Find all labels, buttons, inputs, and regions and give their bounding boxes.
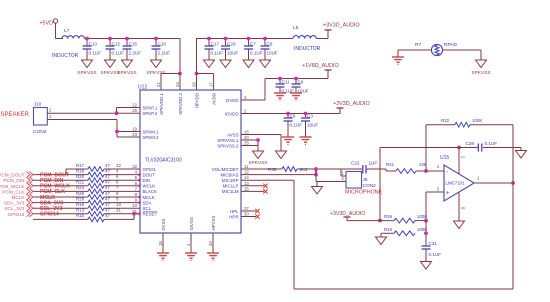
svg-text:25: 25 bbox=[244, 141, 249, 146]
svg-text:47: 47 bbox=[105, 196, 110, 201]
wire mic ground branch bbox=[316, 175, 341, 187]
net label SDA_3V3 bbox=[40, 200, 63, 206]
svg-text:R15: R15 bbox=[76, 213, 85, 218]
junction C6 bbox=[263, 37, 267, 41]
wire DVDD bbox=[241, 70, 328, 100]
svg-text:1UF: 1UF bbox=[369, 161, 378, 166]
svg-text:SPKM.2: SPKM.2 bbox=[143, 135, 160, 140]
svg-text:HPVSS: HPVSS bbox=[211, 216, 216, 231]
svg-text:+3V3D_AUDIO: +3V3D_AUDIO bbox=[330, 211, 365, 217]
svg-text:C31: C31 bbox=[429, 241, 438, 246]
junction R33 node bbox=[424, 231, 428, 235]
svg-text:10: 10 bbox=[116, 202, 121, 207]
wire SCL_3V3 row bbox=[33, 207, 140, 209]
wire VOL/MICDET bbox=[241, 168, 361, 170]
capacitor C29 0.1UF bbox=[466, 141, 498, 152]
wire GPIO14 jog row bbox=[33, 214, 140, 220]
svg-text:R19: R19 bbox=[76, 202, 85, 207]
net label PCM_DOUT bbox=[40, 172, 70, 178]
resistor R15 47 bbox=[76, 213, 110, 222]
capacitor C10 bbox=[152, 39, 171, 56]
ground C29 bbox=[516, 148, 527, 159]
svg-text:MIC1LP: MIC1LP bbox=[223, 184, 239, 189]
wire AVSS bbox=[241, 135, 281, 152]
resistor R7 RPAD bbox=[415, 42, 458, 56]
wire MCLK row bbox=[33, 196, 140, 198]
junction C12 bbox=[108, 37, 112, 41]
svg-text:PCM_CLK: PCM_CLK bbox=[2, 189, 25, 194]
U12 top pin names and numbers bbox=[156, 82, 217, 115]
svg-text:R32: R32 bbox=[441, 118, 450, 123]
junction GPIO14 to RESET bbox=[132, 212, 136, 216]
svg-text:CON2: CON2 bbox=[363, 183, 377, 189]
svg-text:R7: R7 bbox=[415, 42, 421, 48]
svg-text:C15: C15 bbox=[129, 42, 138, 47]
svg-text:47: 47 bbox=[105, 163, 110, 168]
svg-text:DVSS: DVSS bbox=[161, 218, 166, 230]
svg-text:+: + bbox=[446, 191, 450, 197]
ground earth C8 bbox=[282, 127, 294, 144]
svg-text:SDA_3V3: SDA_3V3 bbox=[4, 201, 25, 206]
wire op-amp output bbox=[474, 182, 513, 184]
svg-text:+1V8D_AUDIO: +1V8D_AUDIO bbox=[302, 63, 339, 69]
svg-text:SCL_3V3: SCL_3V3 bbox=[4, 206, 24, 211]
svg-text:SPEAKER: SPEAKER bbox=[1, 112, 30, 118]
junction SPKP bbox=[115, 111, 119, 115]
junction C10 bbox=[154, 37, 158, 41]
off-page connector SDA_3V3 bbox=[4, 200, 33, 206]
svg-text:SPKVDD.2: SPKVDD.2 bbox=[178, 92, 183, 114]
pin number 32 bbox=[116, 163, 121, 168]
junction SPKVDD split bbox=[178, 72, 182, 76]
svg-text:R18: R18 bbox=[76, 168, 85, 173]
resistor R13 47 bbox=[76, 208, 110, 217]
svg-text:DIN: DIN bbox=[143, 178, 151, 183]
svg-text:VOL/MICDET: VOL/MICDET bbox=[212, 167, 239, 172]
svg-text:0.1UF: 0.1UF bbox=[485, 141, 498, 146]
svg-text:20: 20 bbox=[244, 135, 249, 140]
svg-text:+3V3D_AUDIO: +3V3D_AUDIO bbox=[333, 101, 370, 107]
net label PCM_WCLK bbox=[40, 184, 70, 190]
svg-text:MIC1RP: MIC1RP bbox=[222, 178, 239, 183]
svg-text:12: 12 bbox=[244, 170, 249, 175]
wire V+ rail bbox=[380, 148, 521, 221]
junction C15 bbox=[125, 37, 129, 41]
op-amp U15 LMC7101 bbox=[440, 155, 474, 201]
wire PCM_DOUT row bbox=[33, 174, 140, 176]
wire op-amp pin5 bbox=[458, 192, 460, 221]
junction C3 bbox=[304, 112, 308, 116]
svg-text:0.1UF: 0.1UF bbox=[429, 252, 442, 257]
svg-text:R17: R17 bbox=[76, 163, 85, 168]
off-page connector SCL_3V3 bbox=[4, 205, 33, 211]
svg-text:SPKVSS.1: SPKVSS.1 bbox=[217, 138, 239, 143]
ground C20 bbox=[220, 55, 231, 68]
svg-text:AVSS: AVSS bbox=[227, 132, 238, 137]
svg-text:R28: R28 bbox=[76, 196, 85, 201]
capacitor C17 bbox=[205, 39, 224, 56]
svg-text:C20: C20 bbox=[227, 42, 236, 47]
off-page connector PCM_DOUT bbox=[0, 172, 33, 178]
power symbol +1V8D_AUDIO bbox=[302, 63, 339, 79]
svg-text:0.1UF: 0.1UF bbox=[112, 51, 125, 56]
wire R36 to node bbox=[415, 220, 426, 222]
net label SPEAKER bbox=[1, 112, 30, 118]
no-connect X MIC1LP bbox=[263, 184, 267, 188]
svg-text:0.1UF: 0.1UF bbox=[89, 51, 102, 56]
svg-text:R13: R13 bbox=[76, 208, 85, 213]
wire SPKVSS pins bbox=[241, 140, 258, 151]
svg-text:47: 47 bbox=[105, 208, 110, 213]
svg-text:47: 47 bbox=[105, 180, 110, 185]
svg-text:0.1UF: 0.1UF bbox=[290, 123, 303, 128]
ground R33 bbox=[376, 237, 387, 245]
svg-text:47: 47 bbox=[105, 191, 110, 196]
power symbol +3V3D_AUDIO bias bbox=[330, 211, 365, 221]
svg-text:26: 26 bbox=[132, 108, 137, 113]
resistor R26 47 bbox=[76, 191, 110, 200]
svg-text:C10: C10 bbox=[158, 42, 167, 47]
wire PCM_CLK row bbox=[33, 190, 140, 192]
ground SPKVSS mid bbox=[248, 151, 267, 166]
wire AVDD branch bbox=[197, 74, 214, 91]
svg-text:GPIO14: GPIO14 bbox=[8, 212, 25, 217]
resistor R35 2K2 bbox=[268, 167, 308, 172]
svg-text:U12: U12 bbox=[138, 85, 147, 91]
junction feedback input bbox=[424, 169, 428, 173]
pin number 7 bbox=[116, 185, 119, 190]
svg-text:J10: J10 bbox=[34, 102, 42, 108]
wire GPIO14 row bbox=[33, 213, 140, 215]
wire MIC1LM nc bbox=[241, 190, 264, 192]
capacitor C20 bbox=[221, 39, 238, 56]
ground mic bbox=[312, 187, 323, 195]
svg-text:R20: R20 bbox=[76, 174, 85, 179]
svg-text:30: 30 bbox=[244, 212, 249, 217]
ground SPKVSS C10 bbox=[146, 55, 165, 76]
ground C7 bbox=[243, 55, 254, 68]
wire R7 left bbox=[398, 49, 432, 51]
svg-text:MICROPHONE: MICROPHONE bbox=[345, 190, 383, 196]
svg-text:13: 13 bbox=[244, 181, 249, 186]
svg-text:32: 32 bbox=[116, 163, 121, 168]
svg-text:SDA: SDA bbox=[143, 200, 152, 205]
capacitor C31 0.1UF bbox=[422, 241, 442, 262]
pin number 9 bbox=[116, 196, 119, 201]
wire op-amp pin2 supply bbox=[458, 148, 460, 175]
svg-text:HPL: HPL bbox=[230, 209, 239, 214]
svg-text:16: 16 bbox=[244, 130, 249, 135]
net label SCL_3V3 bbox=[40, 206, 63, 212]
svg-text:R31: R31 bbox=[386, 162, 395, 167]
svg-text:L7: L7 bbox=[64, 28, 70, 34]
svg-text:47: 47 bbox=[105, 174, 110, 179]
svg-text:R35: R35 bbox=[268, 167, 277, 172]
svg-text:47: 47 bbox=[105, 202, 110, 207]
wire MIC1LP nc bbox=[241, 185, 264, 187]
svg-text:SPKP.2: SPKP.2 bbox=[143, 111, 158, 116]
capacitor C9 bbox=[292, 79, 309, 94]
svg-text:L5: L5 bbox=[293, 25, 299, 31]
svg-text:C7: C7 bbox=[250, 42, 256, 47]
net label PCM_DIN bbox=[40, 178, 64, 184]
svg-text:SPKVSS.2: SPKVSS.2 bbox=[217, 143, 239, 148]
resistor R24 47 bbox=[76, 185, 110, 194]
capacitor C15 bbox=[123, 39, 142, 56]
wire op-amp pin3 bbox=[426, 192, 444, 221]
ground op-amp pin5 bbox=[454, 221, 465, 229]
svg-text:23: 23 bbox=[132, 132, 137, 137]
svg-text:2.2UF: 2.2UF bbox=[158, 51, 171, 56]
inductor L5 bbox=[293, 25, 321, 52]
svg-text:LMC7101: LMC7101 bbox=[446, 181, 466, 186]
svg-text:SCL: SCL bbox=[143, 206, 152, 211]
resistor R19 47 bbox=[76, 202, 110, 211]
ground earth C11 bbox=[274, 93, 286, 100]
svg-text:HPR: HPR bbox=[229, 214, 238, 219]
wire MIC1RP loop bbox=[241, 180, 513, 289]
capacitor C13 bbox=[83, 39, 102, 56]
off-page connector GPIO14 bbox=[8, 211, 33, 217]
net label MICROPHONE bbox=[345, 190, 383, 196]
junction C13 bbox=[85, 37, 89, 41]
capacitor C7 bbox=[244, 39, 263, 56]
svg-text:PCM_DOUT: PCM_DOUT bbox=[0, 173, 25, 178]
svg-text:MICBIAS: MICBIAS bbox=[220, 172, 238, 177]
svg-text:32: 32 bbox=[132, 164, 137, 169]
wire J10 pin2 to SPKP bbox=[47, 108, 140, 114]
pin junction dots left bank bbox=[138, 173, 141, 215]
svg-text:R36: R36 bbox=[384, 214, 393, 219]
svg-text:29: 29 bbox=[208, 241, 213, 246]
junction bar mic bbox=[314, 167, 318, 176]
ground SPKVSS R7 bbox=[471, 60, 490, 76]
svg-text:C22: C22 bbox=[351, 161, 360, 166]
svg-text:10: 10 bbox=[132, 203, 137, 208]
wire GPIO1 row bbox=[66, 169, 140, 175]
svg-text:CON2: CON2 bbox=[33, 129, 47, 135]
svg-text:24: 24 bbox=[175, 82, 180, 87]
power symbol +5VD bbox=[39, 19, 57, 27]
pin number 10 bbox=[116, 202, 121, 207]
J6 pin stubs bbox=[341, 169, 346, 182]
svg-text:2.2UF: 2.2UF bbox=[129, 51, 142, 56]
svg-text:SPKP.1: SPKP.1 bbox=[143, 105, 158, 110]
wire SPKVDD.1 branch bbox=[161, 74, 180, 91]
pin number 6 bbox=[116, 180, 119, 185]
svg-text:17: 17 bbox=[208, 82, 213, 87]
wire R31 to op-amp bbox=[416, 170, 444, 172]
ground SPKVSS C12 bbox=[100, 55, 119, 76]
svg-text:J6: J6 bbox=[363, 177, 368, 183]
svg-text:100K: 100K bbox=[417, 227, 427, 232]
wire +5VD to rail bbox=[56, 23, 64, 39]
resistor R32 100K bbox=[426, 118, 513, 127]
wire J10 pin1 to SPKM bbox=[47, 114, 140, 137]
svg-text:DVDD: DVDD bbox=[226, 98, 238, 103]
capacitor C11 bbox=[276, 79, 295, 94]
svg-text:SPKVSS: SPKVSS bbox=[471, 70, 490, 76]
svg-text:15: 15 bbox=[244, 186, 249, 191]
op-amp U12 TLV320AIC3100 body bbox=[138, 85, 241, 234]
junction SPKM bbox=[115, 130, 119, 134]
svg-text:10UF: 10UF bbox=[307, 123, 318, 128]
pin number 4 bbox=[116, 168, 119, 173]
wire PCM_WCLK row bbox=[33, 185, 140, 187]
wire HPR nc bbox=[241, 214, 260, 218]
no-connect X MIC1LM bbox=[263, 189, 267, 193]
svg-text:14: 14 bbox=[244, 175, 249, 180]
ground SPKVSS C13 bbox=[77, 55, 96, 76]
net label MCLK bbox=[40, 195, 55, 201]
junction pin3 node bbox=[424, 219, 428, 223]
svg-text:SPKVDD.1: SPKVDD.1 bbox=[159, 92, 164, 114]
U12 right pin names and numbers bbox=[212, 95, 250, 219]
net label GPIO14 bbox=[40, 212, 59, 218]
off-page connector PCM_CLK bbox=[2, 188, 33, 194]
svg-text:0.1UF: 0.1UF bbox=[250, 51, 263, 56]
svg-text:27: 27 bbox=[244, 206, 249, 211]
capacitor C3 bbox=[301, 114, 318, 128]
U12 bottom pin names bbox=[161, 216, 216, 231]
svg-text:C6: C6 bbox=[267, 42, 273, 47]
svg-text:INDUCTOR: INDUCTOR bbox=[294, 46, 321, 52]
svg-text:RPAD: RPAD bbox=[444, 42, 458, 48]
svg-text:100K: 100K bbox=[417, 214, 427, 219]
junction HPVDD split bbox=[195, 72, 199, 76]
op-amp pin labels bbox=[437, 156, 481, 210]
svg-text:MIC1LM: MIC1LM bbox=[222, 189, 239, 194]
svg-text:IOVSS: IOVSS bbox=[189, 217, 194, 230]
resistor R36 100K bbox=[384, 214, 427, 223]
svg-text:SPKM.1: SPKM.1 bbox=[143, 129, 160, 134]
svg-text:HPVDD: HPVDD bbox=[195, 93, 200, 108]
svg-text:10UF: 10UF bbox=[227, 51, 238, 56]
svg-text:DOUT: DOUT bbox=[143, 172, 156, 177]
ground C6 bbox=[260, 55, 271, 68]
capacitor C6 bbox=[261, 39, 278, 56]
off-page connector MCLK bbox=[11, 194, 33, 200]
connector J6 CON2 bbox=[346, 172, 376, 190]
wire rail to pin24 bbox=[179, 39, 181, 91]
svg-text:INDUCTOR: INDUCTOR bbox=[52, 53, 79, 59]
svg-text:IOVDD: IOVDD bbox=[225, 111, 239, 116]
svg-text:C29: C29 bbox=[466, 141, 475, 146]
power symbol +3V3D_AUDIO top bbox=[323, 23, 360, 39]
junction SPKVSS bbox=[256, 138, 260, 142]
svg-text:C3: C3 bbox=[307, 114, 313, 119]
resistor R17 47 bbox=[76, 163, 110, 172]
ground earth C3 bbox=[300, 127, 312, 144]
svg-text:RESET: RESET bbox=[143, 212, 158, 217]
resistor R31 10K bbox=[386, 162, 427, 173]
svg-text:SPKVSS: SPKVSS bbox=[117, 70, 136, 76]
svg-text:R26: R26 bbox=[76, 191, 85, 196]
svg-text:18: 18 bbox=[158, 241, 163, 246]
svg-text:31: 31 bbox=[116, 208, 121, 213]
wire feedback left bbox=[425, 125, 427, 171]
svg-text:100K: 100K bbox=[472, 118, 482, 123]
wire MICBIAS bbox=[241, 174, 316, 176]
connector J10 CON2 bbox=[33, 102, 47, 136]
svg-text:R24: R24 bbox=[76, 185, 85, 190]
junction 3V3 tap bbox=[378, 219, 382, 223]
wire bias rail bbox=[347, 220, 394, 222]
svg-text:22: 22 bbox=[132, 103, 137, 108]
capacitor C22 1UF bbox=[351, 161, 386, 174]
ground AVSS bbox=[276, 151, 287, 159]
resistor R28 47 bbox=[76, 196, 110, 205]
pin number 5 bbox=[116, 174, 119, 179]
U12 left pin names and numbers bbox=[132, 103, 159, 217]
svg-text:PCM_WCLK: PCM_WCLK bbox=[0, 184, 25, 189]
svg-text:28: 28 bbox=[191, 82, 196, 87]
svg-text:WCLK: WCLK bbox=[143, 184, 156, 189]
svg-text:10UF: 10UF bbox=[267, 51, 278, 56]
wire R33 left to ground bbox=[381, 233, 394, 237]
svg-text:0.1UF: 0.1UF bbox=[211, 51, 224, 56]
net label PCM_CLK bbox=[40, 189, 65, 195]
svg-text:C17: C17 bbox=[211, 42, 220, 47]
resistor R18 47 bbox=[76, 168, 110, 177]
wire PCM_DIN row bbox=[33, 179, 140, 181]
svg-text:+5VD: +5VD bbox=[39, 21, 53, 27]
off-page connector PCM_WCLK bbox=[0, 183, 33, 189]
ground earth R7 bbox=[392, 50, 404, 64]
svg-text:21: 21 bbox=[156, 82, 161, 87]
svg-text:GPIO14: GPIO14 bbox=[40, 212, 59, 218]
pin number 31 bbox=[116, 208, 121, 213]
ground HPVSS bbox=[207, 233, 219, 260]
svg-text:AVDD: AVDD bbox=[212, 93, 217, 105]
svg-text:C12: C12 bbox=[112, 42, 121, 47]
svg-text:SPKVSS: SPKVSS bbox=[248, 160, 267, 166]
svg-text:BLACK: BLACK bbox=[143, 189, 157, 194]
svg-text:R21: R21 bbox=[76, 180, 85, 185]
wire HPL nc bbox=[241, 209, 260, 213]
ground SPKVSS C15 bbox=[117, 55, 136, 76]
junction pin2 rail bbox=[457, 146, 461, 150]
svg-text:C13: C13 bbox=[89, 42, 98, 47]
wire node down bbox=[425, 221, 427, 246]
wire L5 to +3V3D_AUDIO bbox=[316, 30, 328, 39]
svg-text:R33: R33 bbox=[384, 227, 393, 232]
wire R7 right bbox=[443, 50, 481, 60]
wire feedback right bbox=[512, 125, 514, 289]
U12 bottom pin numbers bbox=[158, 241, 213, 246]
inductor L7 bbox=[52, 28, 84, 59]
ground C17 bbox=[204, 55, 215, 68]
svg-text:47: 47 bbox=[105, 185, 110, 190]
junction output bbox=[511, 181, 515, 185]
svg-text:GPIO1: GPIO1 bbox=[143, 167, 157, 172]
svg-text:-: - bbox=[446, 170, 448, 176]
svg-text:+3V3D_AUDIO: +3V3D_AUDIO bbox=[323, 23, 360, 29]
junction C8 bbox=[286, 112, 290, 116]
svg-text:C9: C9 bbox=[298, 80, 304, 85]
resistor R21 47 bbox=[76, 180, 110, 189]
capacitor C8 bbox=[284, 114, 303, 128]
ground IOVSS bbox=[185, 233, 197, 260]
ground DVSS bbox=[157, 233, 169, 260]
junction C11 bbox=[278, 77, 282, 81]
svg-text:C8: C8 bbox=[290, 114, 296, 119]
svg-text:PCM_DIN: PCM_DIN bbox=[3, 178, 24, 183]
svg-text:19: 19 bbox=[132, 127, 137, 132]
wire HPVDD rail bbox=[197, 39, 294, 91]
power symbol +3V3D_AUDIO mid bbox=[333, 101, 370, 114]
ground earth C9 bbox=[290, 93, 302, 100]
